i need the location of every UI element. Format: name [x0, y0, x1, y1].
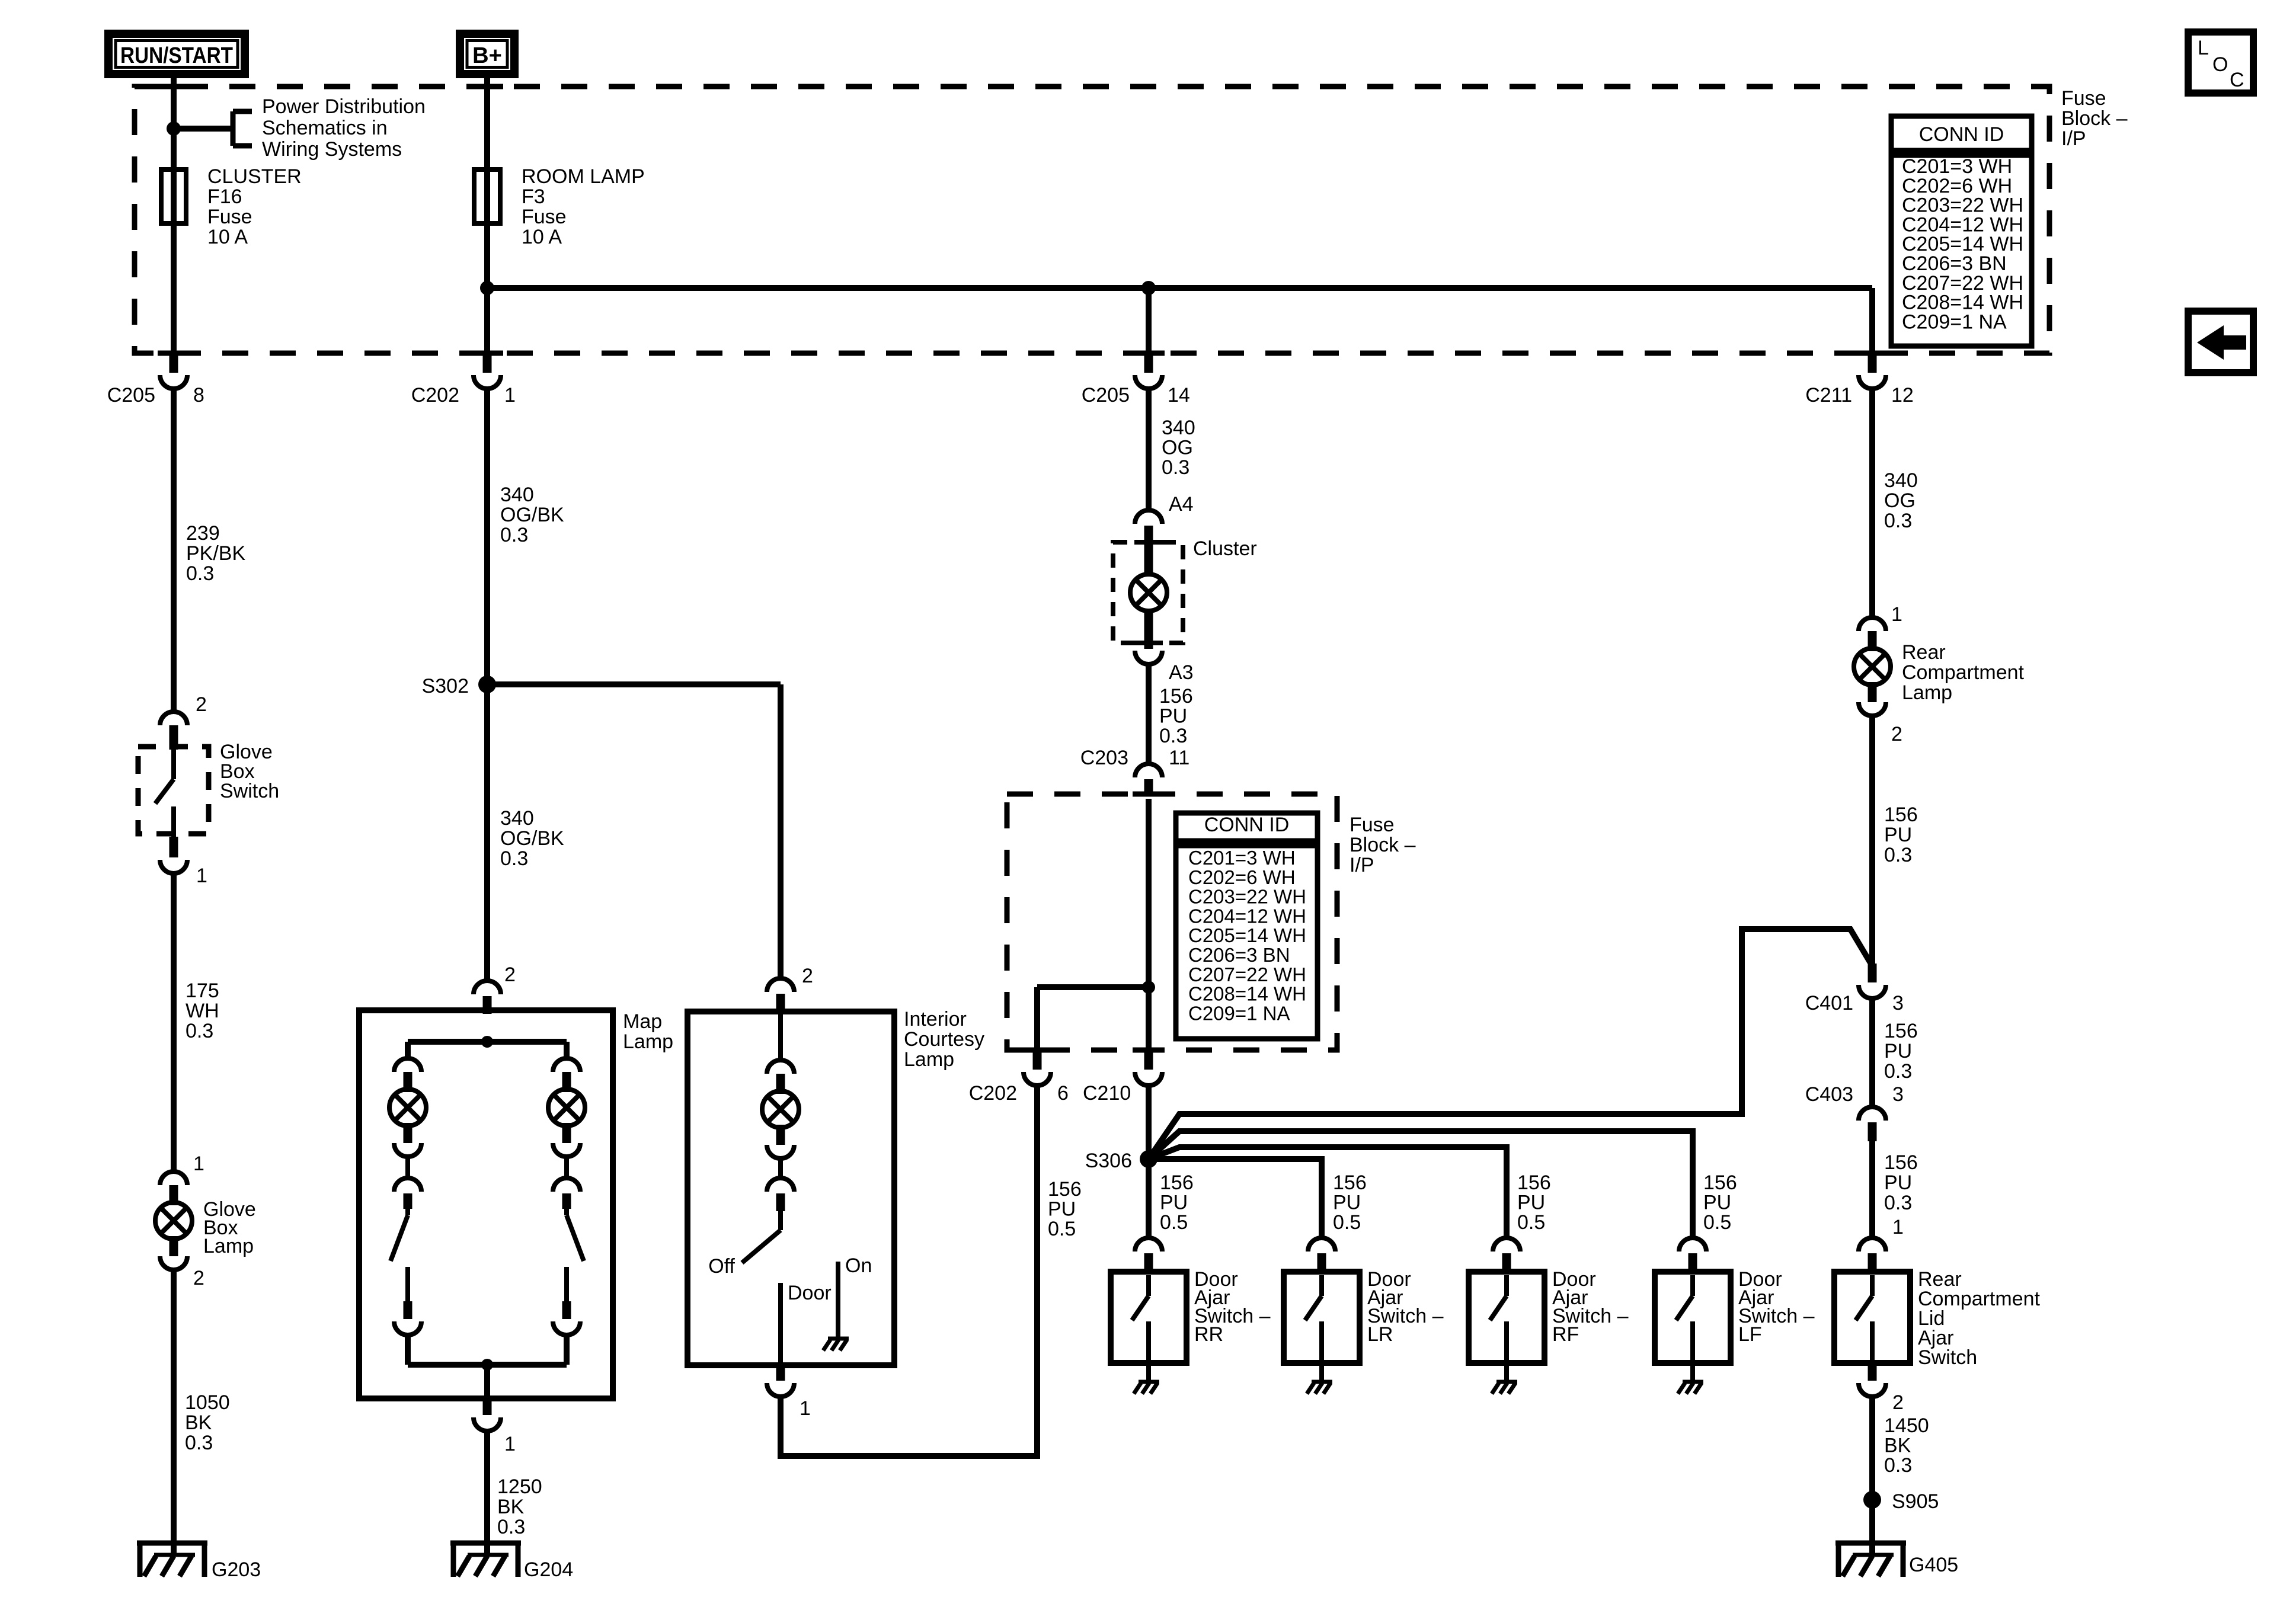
wire S302 down to map lamp: [484, 684, 490, 981]
connector C205 pin 14: [1144, 355, 1153, 373]
svg-text:C: C: [2230, 69, 2244, 91]
splice S306: [1140, 1150, 1157, 1168]
svg-text:C209=1 NA: C209=1 NA: [1902, 311, 2007, 333]
svg-text:LF: LF: [1738, 1323, 1762, 1346]
svg-text:G405: G405: [1909, 1554, 1958, 1576]
lid ajar switch pin 2 connector: [1868, 1363, 1877, 1381]
svg-text:G204: G204: [524, 1558, 573, 1581]
svg-text:C207=22 WH: C207=22 WH: [1188, 964, 1306, 985]
wire C401 to C403: [1869, 998, 1875, 1107]
svg-text:LR: LR: [1367, 1323, 1393, 1346]
svg-text:156: 156: [1884, 1020, 1918, 1042]
svg-text:Lamp: Lamp: [203, 1235, 254, 1257]
svg-text:Door: Door: [788, 1282, 832, 1304]
svg-text:F3: F3: [522, 185, 545, 208]
svg-text:PU: PU: [1703, 1192, 1731, 1214]
svg-text:C208=14 WH: C208=14 WH: [1188, 983, 1306, 1005]
svg-text:156: 156: [1333, 1172, 1367, 1194]
fuse block internal junction: [1142, 981, 1155, 994]
svg-text:O: O: [2212, 53, 2228, 76]
svg-text:239: 239: [186, 522, 220, 545]
connector C202 pin 6: [1033, 1052, 1042, 1070]
svg-text:1: 1: [1891, 603, 1902, 626]
svg-text:RR: RR: [1194, 1323, 1223, 1346]
wire B+ feed down through fuse F3: [484, 73, 490, 356]
svg-text:C403: C403: [1805, 1083, 1853, 1106]
svg-text:1450: 1450: [1884, 1414, 1929, 1437]
LOC symbol box: [2188, 32, 2253, 93]
fuse block I/P dashed outline (second): [1007, 794, 1337, 1050]
svg-text:WH: WH: [186, 1000, 219, 1022]
svg-text:C204=12 WH: C204=12 WH: [1188, 905, 1306, 927]
svg-text:A3: A3: [1169, 661, 1194, 684]
svg-text:0.3: 0.3: [1884, 1192, 1912, 1214]
svg-text:Switch: Switch: [220, 780, 279, 802]
svg-text:11: 11: [1169, 747, 1189, 769]
svg-text:156: 156: [1159, 685, 1193, 708]
svg-text:Compartment: Compartment: [1902, 661, 2025, 684]
connector C210: [1144, 1052, 1153, 1070]
svg-text:12: 12: [1891, 384, 1914, 406]
wire S306 to door ajar switch RR: [1146, 1159, 1152, 1238]
svg-text:10 A: 10 A: [207, 226, 248, 248]
svg-text:CONN ID: CONN ID: [1919, 123, 2004, 146]
wire bus to connector C205 pin 14: [1146, 288, 1152, 356]
svg-text:PU: PU: [1159, 705, 1187, 728]
svg-text:C203=22 WH: C203=22 WH: [1188, 886, 1306, 908]
interior courtesy lamp Door contact: [778, 1283, 783, 1365]
svg-text:PU: PU: [1884, 1172, 1912, 1194]
svg-text:ROOM LAMP: ROOM LAMP: [522, 165, 645, 188]
svg-text:2: 2: [1891, 723, 1902, 745]
svg-text:PU: PU: [1333, 1192, 1361, 1214]
svg-text:340: 340: [1884, 469, 1918, 492]
svg-text:2: 2: [193, 1267, 204, 1289]
fuse block internal wire to C202 pin 6: [1037, 984, 1149, 990]
svg-text:CONN ID: CONN ID: [1204, 814, 1290, 836]
CONN ID table (second): [1176, 813, 1318, 841]
svg-text:Interior: Interior: [904, 1008, 967, 1030]
glove box switch pin 2 connector: [160, 712, 187, 725]
glove box switch pin 1 connector: [170, 837, 178, 857]
svg-text:Fuse: Fuse: [207, 206, 252, 228]
svg-text:340: 340: [500, 807, 534, 830]
svg-text:BK: BK: [1884, 1435, 1911, 1457]
wire S306 to door ajar switch LR: [1149, 1159, 1322, 1238]
map lamp right switch: [564, 1157, 569, 1178]
door ajar switch LF: [1679, 1238, 1706, 1251]
svg-text:0.3: 0.3: [1884, 844, 1912, 866]
back arrow symbol: [2188, 311, 2253, 373]
wire 340 OG/BK to splice S302: [484, 389, 490, 684]
svg-text:0.3: 0.3: [497, 1516, 525, 1538]
wire 1450 BK to splice S905: [1869, 1397, 1875, 1556]
svg-text:OG: OG: [1884, 489, 1916, 512]
svg-text:OG/BK: OG/BK: [500, 504, 564, 526]
svg-text:156: 156: [1703, 1172, 1737, 1194]
svg-text:Lamp: Lamp: [904, 1048, 954, 1071]
wire bus to connector C211 pin 12: [1869, 288, 1875, 356]
svg-text:0.3: 0.3: [500, 524, 528, 546]
svg-text:F16: F16: [207, 185, 242, 208]
svg-text:340: 340: [500, 484, 534, 506]
svg-text:B+: B+: [472, 43, 502, 68]
CONN ID table (fuse block top): [1891, 116, 2032, 151]
interior courtesy lamp pin 1 connector: [776, 1363, 785, 1381]
map lamp pin 2 connector: [474, 981, 501, 994]
svg-text:3: 3: [1892, 1083, 1904, 1106]
svg-text:1: 1: [1892, 1216, 1904, 1238]
svg-text:BK: BK: [497, 1496, 525, 1518]
svg-text:0.5: 0.5: [1160, 1211, 1188, 1234]
interior courtesy lamp bulb: [778, 1012, 783, 1061]
svg-text:1: 1: [504, 384, 516, 406]
power distribution reference bracket: [174, 126, 233, 132]
wire 156 PU cluster to C203: [1146, 664, 1152, 764]
svg-text:Switch: Switch: [1918, 1346, 1977, 1369]
svg-text:0.3: 0.3: [186, 562, 214, 585]
connector C403 pin 3: [1859, 1107, 1886, 1121]
svg-text:0.3: 0.3: [185, 1432, 213, 1454]
wire interior courtesy lamp to C202 pin 6: [781, 1086, 1037, 1456]
map lamp box: [359, 1010, 613, 1398]
splice S905: [1863, 1491, 1881, 1509]
interior courtesy lamp pin 2 connector: [767, 978, 794, 992]
svg-text:Fuse: Fuse: [522, 206, 567, 228]
power feed box RUN/START: [108, 34, 245, 74]
wire 239 PK/BK to glove box switch: [171, 389, 177, 712]
junction bus to cluster branch: [1141, 281, 1156, 295]
svg-text:1: 1: [196, 865, 207, 887]
svg-text:RF: RF: [1552, 1323, 1579, 1346]
map lamp internal feed junction: [481, 1036, 493, 1048]
svg-text:1250: 1250: [497, 1475, 542, 1498]
wire 340 OG to cluster: [1146, 386, 1152, 510]
svg-text:2: 2: [802, 965, 813, 987]
wire C210 to splice S306: [1146, 1086, 1152, 1159]
svg-text:156: 156: [1048, 1178, 1082, 1201]
interior courtesy lamp switch blade: [778, 1158, 783, 1178]
svg-text:C206=3 BN: C206=3 BN: [1188, 944, 1290, 966]
wire S306 to door ajar switch LF: [1149, 1131, 1693, 1238]
svg-text:0.3: 0.3: [1884, 510, 1912, 532]
connector C202 pin 1: [483, 355, 492, 373]
glove box lamp: [160, 1172, 187, 1185]
glove box switch (dashed): [138, 747, 209, 834]
map lamp right branch wire to common: [564, 1335, 570, 1365]
connector C401 pin 3: [1868, 964, 1877, 982]
fuse block I/P dashed outline (top): [135, 87, 2049, 353]
svg-text:0.3: 0.3: [1884, 1060, 1912, 1083]
svg-text:175: 175: [186, 980, 219, 1002]
svg-text:OG/BK: OG/BK: [500, 827, 564, 850]
svg-text:PU: PU: [1160, 1192, 1188, 1214]
svg-text:Wiring Systems: Wiring Systems: [262, 138, 402, 161]
power feed box B+: [460, 34, 514, 74]
wire C403 to lid ajar switch: [1869, 1141, 1875, 1238]
svg-text:CLUSTER: CLUSTER: [207, 165, 302, 188]
map lamp left branch wire to common: [405, 1335, 411, 1365]
svg-text:0.5: 0.5: [1048, 1218, 1076, 1240]
rear compartment lid ajar switch: [1859, 1238, 1886, 1251]
junction on RUN/START feed: [167, 121, 181, 136]
svg-text:Schematics in: Schematics in: [262, 117, 388, 139]
svg-text:I/P: I/P: [1350, 854, 1374, 876]
svg-text:PU: PU: [1048, 1198, 1076, 1221]
svg-text:C203: C203: [1080, 747, 1128, 769]
svg-text:1: 1: [504, 1433, 516, 1455]
svg-text:156: 156: [1884, 1151, 1918, 1174]
svg-text:PU: PU: [1884, 1040, 1912, 1062]
svg-text:Rear: Rear: [1902, 641, 1946, 664]
svg-text:C201=3 WH: C201=3 WH: [1188, 847, 1296, 869]
svg-text:S302: S302: [422, 675, 469, 697]
svg-text:10 A: 10 A: [522, 226, 562, 248]
svg-text:0.5: 0.5: [1703, 1211, 1731, 1234]
wire 340 OG to rear compartment lamp: [1869, 389, 1875, 618]
cluster illumination lamp: [1144, 543, 1153, 577]
svg-text:C202: C202: [969, 1082, 1017, 1105]
svg-text:BK: BK: [185, 1411, 212, 1434]
rear compartment lamp: [1859, 617, 1886, 631]
svg-text:Lamp: Lamp: [1902, 681, 1952, 704]
ground G405: [1835, 1541, 1906, 1546]
svg-text:0.3: 0.3: [500, 847, 528, 870]
svg-text:0.3: 0.3: [186, 1020, 213, 1042]
splice S302: [478, 676, 496, 693]
svg-text:156: 156: [1884, 804, 1918, 826]
svg-text:0.5: 0.5: [1517, 1211, 1545, 1234]
svg-text:340: 340: [1162, 417, 1195, 439]
fuse F3 ROOM LAMP 10A: [474, 169, 500, 223]
connector C203 pin 11: [1135, 764, 1162, 777]
wire RUN/START feed down through fuse F16: [171, 73, 177, 356]
bus wire from B+ fuse to right branch: [487, 285, 1872, 291]
svg-text:S905: S905: [1892, 1490, 1939, 1513]
svg-text:Courtesy: Courtesy: [904, 1028, 984, 1051]
svg-text:Power Distribution: Power Distribution: [262, 95, 426, 118]
wire 175 WH to glove box lamp: [171, 874, 177, 1172]
map lamp internal common wire: [408, 1362, 567, 1368]
svg-text:C211: C211: [1805, 384, 1852, 406]
map lamp internal common junction: [481, 1359, 493, 1371]
svg-text:0.3: 0.3: [1162, 456, 1189, 479]
fuse F16 CLUSTER 10A: [161, 169, 186, 223]
svg-text:2: 2: [1892, 1391, 1904, 1414]
interior courtesy lamp box: [687, 1012, 894, 1365]
cluster connector A4: [1135, 510, 1162, 524]
svg-text:2: 2: [504, 964, 516, 986]
svg-text:0.3: 0.3: [1159, 725, 1187, 747]
wire S306 to door ajar switch RF: [1149, 1147, 1507, 1238]
svg-text:8: 8: [193, 384, 204, 406]
svg-text:C202: C202: [411, 384, 459, 406]
wire S306 to rear compartment circuit C401: [1149, 929, 1872, 1159]
svg-text:C209=1 NA: C209=1 NA: [1188, 1002, 1290, 1024]
svg-text:6: 6: [1057, 1082, 1069, 1105]
svg-text:156: 156: [1517, 1172, 1551, 1194]
svg-text:RUN/START: RUN/START: [120, 43, 233, 68]
svg-text:1: 1: [800, 1397, 811, 1420]
connector C205 pin 8: [170, 355, 178, 373]
svg-text:Map: Map: [623, 1010, 662, 1033]
interior courtesy lamp On contact with ground: [836, 1262, 840, 1339]
svg-text:0.5: 0.5: [1333, 1211, 1361, 1234]
junction B+ bus: [480, 281, 494, 295]
svg-text:C205=14 WH: C205=14 WH: [1188, 924, 1306, 946]
svg-text:Lamp: Lamp: [623, 1030, 673, 1053]
svg-text:C205: C205: [107, 384, 155, 406]
wire S302 to interior courtesy lamp: [487, 681, 781, 687]
svg-text:3: 3: [1892, 992, 1904, 1014]
cluster connector A3: [1135, 651, 1162, 664]
svg-text:Fuse: Fuse: [1350, 814, 1395, 836]
svg-text:S306: S306: [1085, 1150, 1132, 1172]
boundary ticks where wires cross fuse block outline: [158, 84, 190, 89]
svg-text:A4: A4: [1169, 493, 1194, 516]
svg-text:PU: PU: [1517, 1192, 1545, 1214]
svg-text:Off: Off: [708, 1255, 735, 1278]
wire 156 PU rear lamp to C401: [1869, 716, 1875, 966]
svg-text:0.3: 0.3: [1884, 1454, 1912, 1477]
svg-text:14: 14: [1168, 384, 1190, 406]
svg-text:1: 1: [193, 1153, 204, 1175]
svg-text:OG: OG: [1162, 437, 1193, 459]
door ajar switch RF: [1493, 1238, 1520, 1251]
door ajar switch RR: [1135, 1238, 1162, 1251]
map lamp pin 1 connector: [483, 1396, 492, 1415]
svg-text:Cluster: Cluster: [1193, 537, 1257, 560]
svg-text:PK/BK: PK/BK: [186, 542, 245, 565]
cluster dashed box: [1113, 542, 1183, 643]
svg-text:Block –: Block –: [2061, 107, 2128, 130]
map lamp right bulb: [564, 1042, 570, 1059]
fuse block internal wire to C210: [1146, 799, 1152, 1052]
svg-text:G203: G203: [212, 1558, 261, 1581]
svg-text:On: On: [845, 1254, 872, 1277]
svg-text:C205: C205: [1082, 384, 1130, 406]
svg-text:I/P: I/P: [2061, 127, 2086, 150]
wire 1050 BK to ground G203: [171, 1269, 177, 1556]
svg-text:PU: PU: [1884, 824, 1912, 846]
svg-text:2: 2: [196, 693, 207, 716]
map lamp left bulb: [405, 1042, 411, 1059]
map lamp left switch: [405, 1157, 410, 1178]
ground G203: [137, 1541, 207, 1546]
connector C211 pin 12: [1868, 355, 1877, 373]
svg-text:C401: C401: [1805, 992, 1853, 1014]
wire 1250 BK to ground G204: [484, 1431, 490, 1556]
svg-text:Block –: Block –: [1350, 834, 1416, 856]
ground G204: [450, 1541, 521, 1546]
svg-text:C210: C210: [1083, 1082, 1131, 1105]
svg-text:Fuse: Fuse: [2061, 87, 2106, 110]
svg-text:C202=6 WH: C202=6 WH: [1188, 866, 1296, 888]
svg-text:1050: 1050: [185, 1391, 230, 1414]
svg-text:156: 156: [1160, 1172, 1194, 1194]
svg-text:L: L: [2198, 37, 2209, 59]
door ajar switch LR: [1308, 1238, 1335, 1251]
